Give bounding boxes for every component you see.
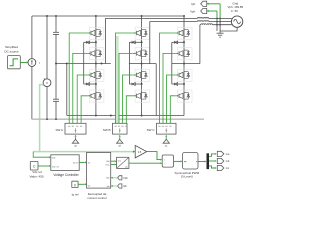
gate bundle pale wire: [115, 36, 119, 123]
wire Vd: [111, 160, 115, 162]
constant Iq ref 0: [72, 181, 78, 187]
wire leg C output: [172, 63, 200, 65]
grid inductor La: [197, 17, 209, 20]
wire leg B drop: [155, 64, 157, 116]
from tag Iph: [111, 184, 128, 188]
measurement tap Iph: [219, 4, 221, 19]
IGBT S34: [175, 90, 192, 102]
svg-text:current control: current control: [87, 196, 107, 200]
clamp diode D36: [172, 83, 185, 86]
capacitor C1: [55, 16, 57, 32]
goto tag mc: [217, 165, 230, 170]
IGBT S11: [87, 27, 104, 39]
svg-text:Iq ref: Iq ref: [72, 193, 79, 197]
gate wire g14: [81, 96, 87, 124]
gate wire g22: [119, 53, 133, 123]
gate wire g12: [73, 53, 87, 123]
gain 0.5: [135, 145, 147, 158]
gate pulse block SW B: [113, 123, 128, 134]
wire Vdc to gain: [33, 151, 133, 153]
divide block: [162, 155, 173, 167]
svg-text:Id ref: Id ref: [73, 162, 78, 165]
from tag gc: [163, 135, 169, 148]
svg-text:Simplified: Simplified: [5, 45, 18, 49]
constant Vdc ref: [30, 162, 38, 171]
wire abc ref to divide: [129, 162, 160, 164]
measurement tap Vph: [216, 11, 218, 22]
IGBT S24: [133, 90, 150, 102]
IGBT S22: [133, 48, 150, 60]
svg-text:(3-Level): (3-Level): [181, 175, 193, 179]
from tag ga: [72, 135, 78, 148]
gate wire g13: [77, 75, 87, 123]
gate wire g34: [170, 96, 175, 124]
svg-text:F: 50: F: 50: [231, 9, 238, 13]
wire demux to mc: [209, 166, 214, 168]
clamp diode D16: [84, 83, 97, 86]
goto tag mb: [217, 158, 230, 163]
svg-text:DQ: DQ: [118, 160, 121, 162]
svg-text:Voltage Controller: Voltage Controller: [53, 173, 79, 177]
DC source block: [7, 56, 20, 69]
grid source G1: [231, 16, 242, 27]
wire theta: [111, 164, 115, 166]
svg-text:Value: 450: Value: 450: [29, 174, 43, 178]
dq to abc block: [117, 157, 129, 168]
grid inductor Lc: [200, 24, 201, 26]
wire demux to mb: [209, 160, 214, 162]
leg A main vertical: [95, 16, 97, 116]
goto tag Iph: [191, 1, 220, 6]
svg-text:Vph: Vph: [190, 9, 196, 13]
wire DC source to ammeter: [20, 62, 26, 64]
wire Iq ref: [78, 183, 85, 185]
from tag gb: [117, 135, 123, 148]
svg-text:mb: mb: [226, 159, 230, 163]
neutral wire: [56, 63, 111, 65]
svg-text:Iph: Iph: [191, 2, 195, 6]
svg-text:|Vd|: |Vd|: [106, 161, 110, 163]
wire source to ground: [220, 27, 237, 31]
gate wire g21: [116, 33, 133, 123]
IGBT S32: [175, 48, 192, 60]
svg-text:Vdc ref: Vdc ref: [52, 165, 59, 168]
wire PWM to demux: [198, 161, 204, 163]
IGBT S13: [87, 69, 104, 81]
svg-text:0: 0: [74, 183, 76, 187]
DC- bus: [67, 115, 184, 117]
voltage controller block: [51, 155, 79, 171]
wire leg B output: [129, 63, 156, 65]
grid inductor Lb: [197, 20, 209, 23]
IGBT S33: [175, 69, 192, 81]
gate pulse block SW C: [157, 123, 177, 134]
wire Vdc measurement down to controller: [40, 85, 44, 152]
phase A line: [106, 19, 198, 64]
from tag Vph: [111, 176, 129, 180]
capacitor C2: [55, 64, 57, 100]
clamp diode D25: [129, 41, 142, 44]
svg-text:ma: ma: [226, 153, 230, 156]
wire neutral drop: [66, 64, 68, 116]
wire demux to ma: [209, 154, 214, 156]
decoupled dq current control block: [87, 153, 111, 189]
DC+ bus: [32, 15, 184, 17]
phase C line: [199, 25, 201, 64]
voltmeter V1: [46, 16, 48, 79]
wire m to PWM: [174, 160, 181, 162]
svg-text:x: x: [164, 160, 165, 162]
clamp diode D26: [129, 83, 142, 86]
gate wire g32: [163, 53, 175, 123]
ground: [217, 31, 224, 37]
clamp diode D35: [172, 41, 185, 44]
wire Vdc ref to controller: [38, 165, 49, 167]
gate wire g33: [167, 75, 176, 123]
clamp rail leg A: [83, 42, 85, 84]
svg-text:SW C: SW C: [147, 128, 156, 132]
ammeter I1: [31, 16, 33, 59]
leg C main vertical: [183, 16, 185, 116]
svg-text:Iph: Iph: [123, 184, 127, 188]
leg B main vertical: [141, 16, 143, 116]
demux: [207, 153, 210, 169]
goto tag ma: [217, 151, 230, 156]
svg-text:Iq*: Iq*: [88, 185, 91, 187]
svg-text:Id*: Id*: [88, 163, 91, 165]
gate wire g31: [160, 33, 176, 123]
phase B line: [150, 22, 198, 64]
gate wire g11: [69, 33, 87, 123]
gate wire g23: [123, 75, 133, 123]
svg-text:abc: abc: [125, 166, 128, 168]
clamp rail leg C: [171, 42, 173, 84]
goto tag Vph: [190, 8, 217, 13]
three-phase measurement line: [32, 118, 204, 120]
svg-text:DC source: DC source: [4, 49, 19, 53]
gate pulse block SW A: [65, 123, 86, 134]
clamp diode D15: [84, 41, 97, 44]
svg-text:I: I: [39, 61, 40, 65]
wire Vdc branch to controller: [33, 152, 49, 158]
svg-text:Vph: Vph: [123, 176, 128, 180]
IGBT S31: [175, 27, 192, 39]
IGBT S23: [133, 69, 150, 81]
IGBT S12: [87, 48, 104, 60]
svg-text:V: V: [46, 81, 48, 85]
wire gain to divide: [147, 152, 160, 160]
gate wire g24: [126, 96, 133, 124]
symmetrical PWM block: [183, 153, 199, 170]
wire Id ref: [79, 161, 85, 163]
svg-text:SW A: SW A: [55, 128, 63, 132]
IGBT S21: [133, 27, 150, 39]
IGBT S14: [87, 90, 104, 102]
clamp rail leg B: [128, 42, 130, 84]
svg-text:SW B: SW B: [103, 128, 111, 132]
